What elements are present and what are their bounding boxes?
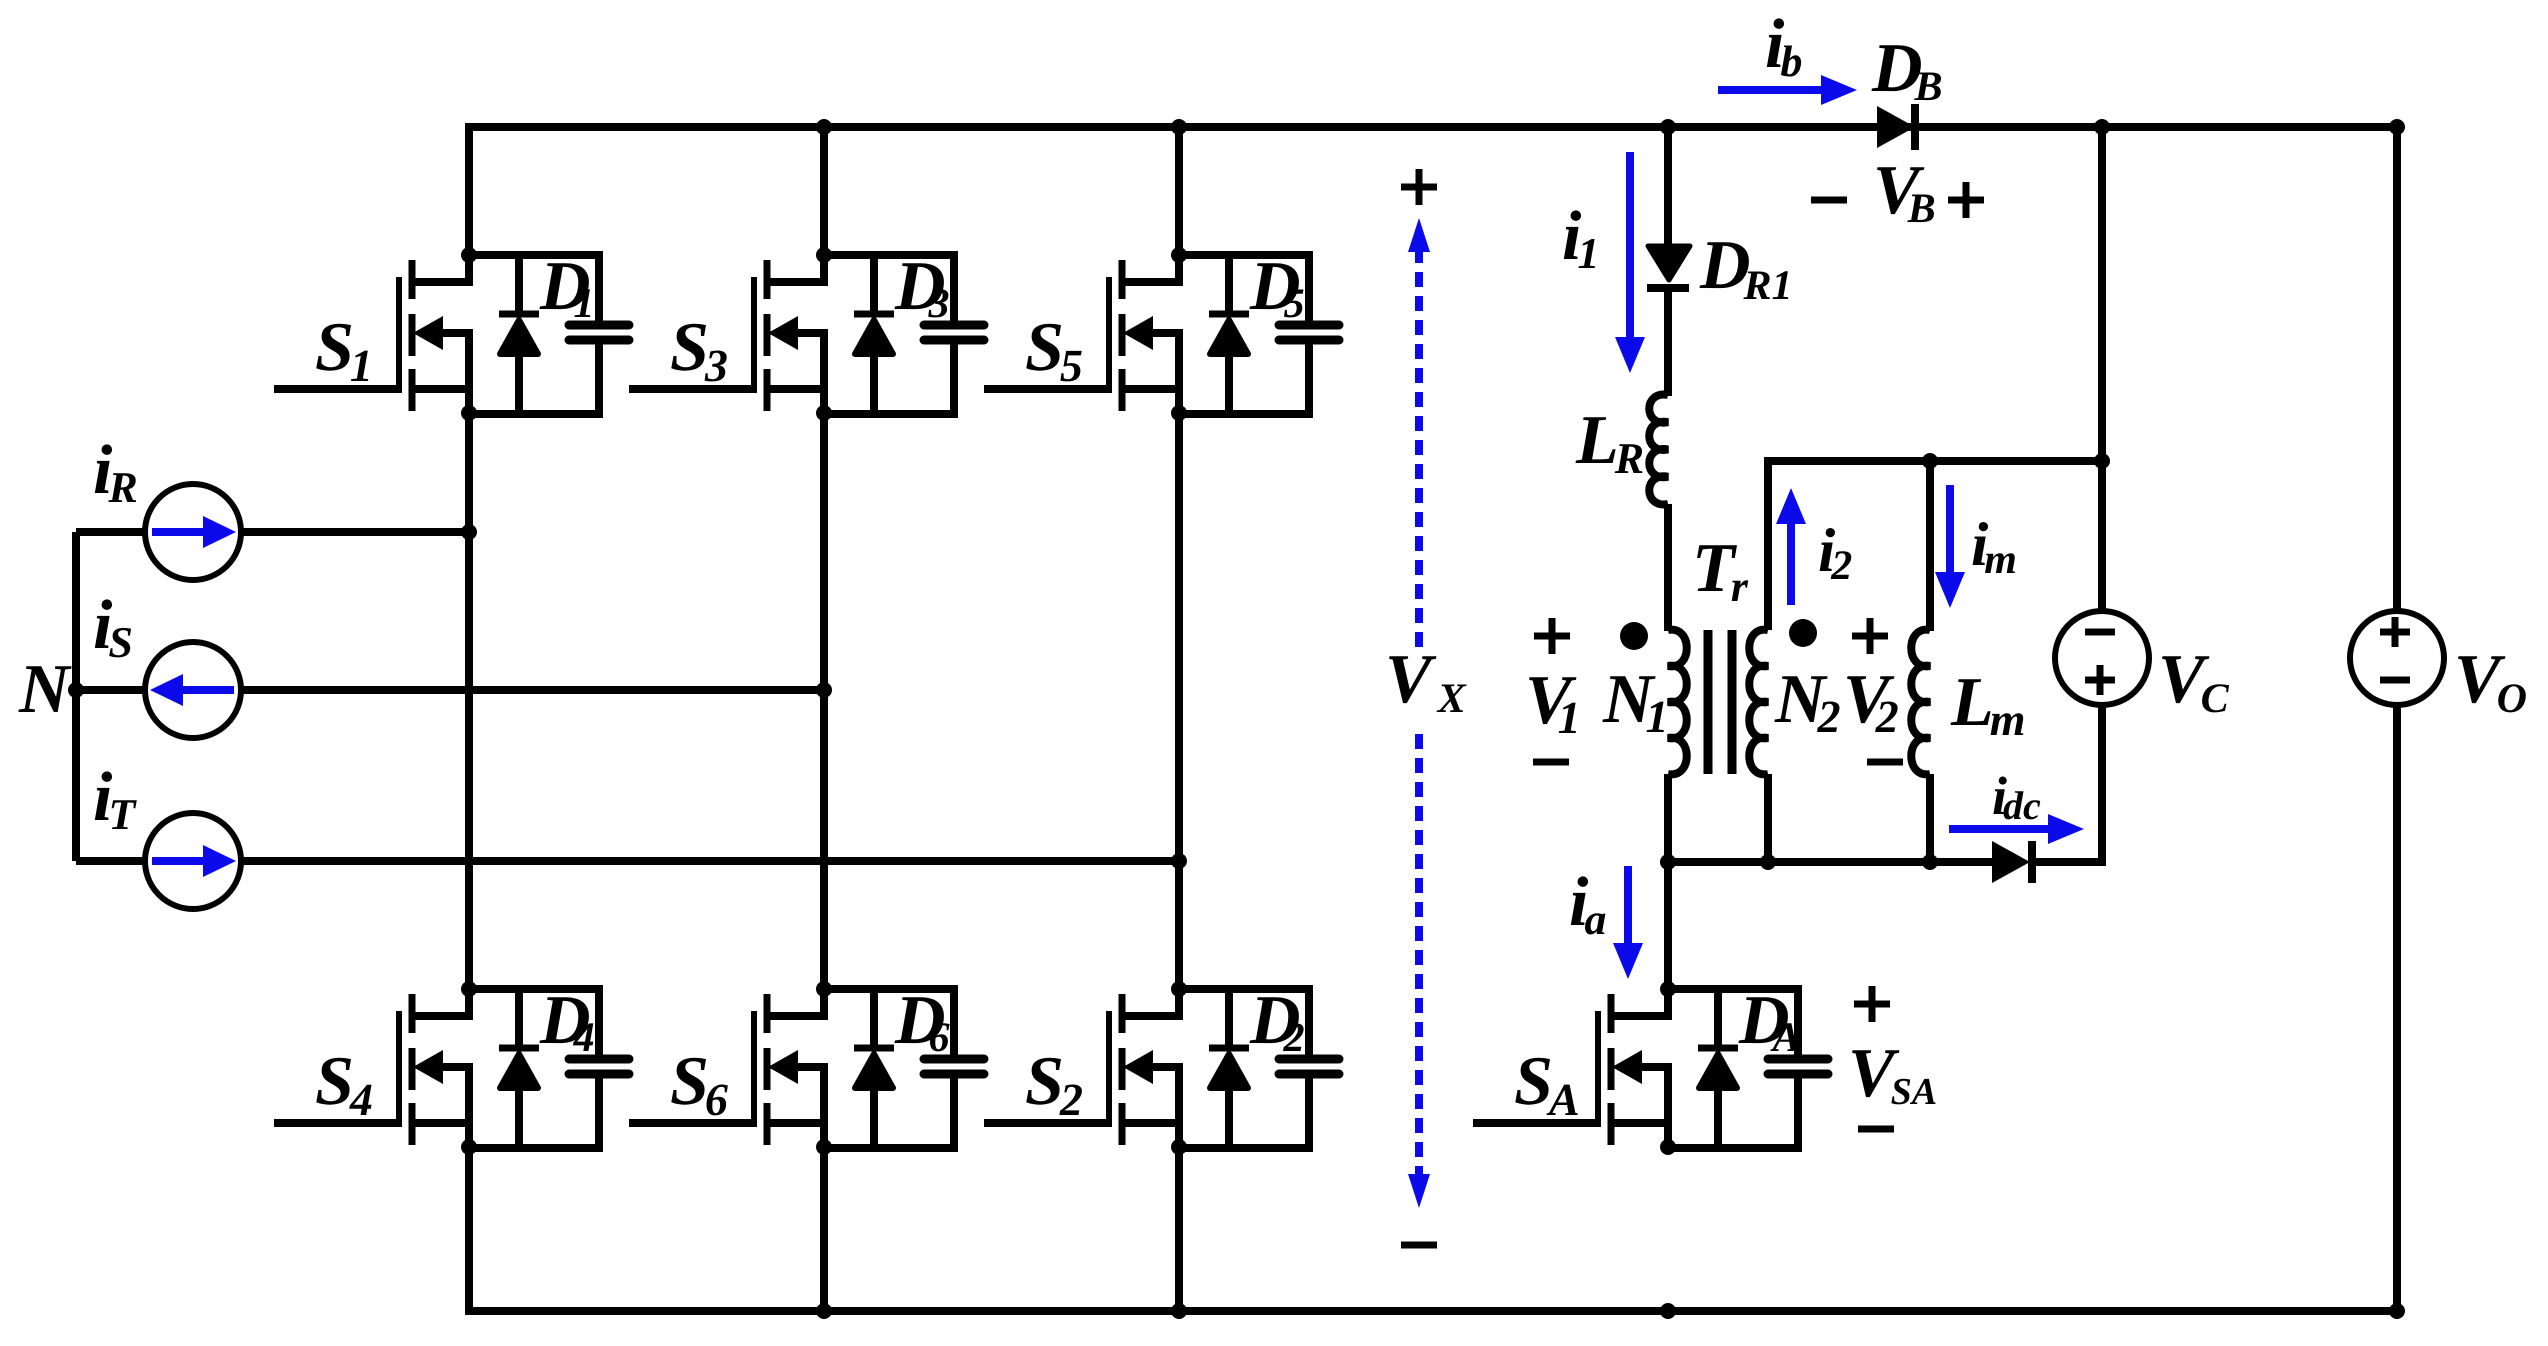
label Lm: [1951, 679, 2024, 735]
wire cell S1 top: [469, 251, 599, 259]
transistor S6 source lead: [770, 1067, 824, 1148]
wire VO column upper: [2393, 123, 2401, 611]
label ia: [1571, 876, 1606, 934]
label S3: [671, 324, 726, 382]
current source iT: [145, 813, 241, 909]
transformer primary winding N1: [1668, 630, 1687, 775]
wire cell S4 bottom: [469, 1144, 599, 1152]
diode DB triangle: [1877, 106, 1915, 148]
transistor S3 drain lead: [770, 255, 824, 282]
transistor S4 gate bar: [396, 1011, 402, 1125]
wire column R lower (S4 to bottom rail): [465, 1147, 473, 1311]
transistor S4 source lead: [415, 1067, 469, 1148]
wire cell S5 top: [1179, 251, 1309, 259]
wire bottom rail: [465, 1307, 2397, 1315]
wire phase S left lead: [76, 686, 146, 694]
label V2 minus: [1867, 759, 1903, 766]
inductor Lm riser: [1926, 461, 1934, 631]
transistor S5 channel bar middle: [1119, 314, 1126, 356]
transistor S1 body arrow: [413, 316, 443, 350]
transistor S4 channel bar top: [409, 994, 416, 1033]
node S1 source (bottom): [461, 405, 477, 421]
diode DA cathode lead: [1714, 989, 1722, 1045]
wire neutral left vertical: [72, 532, 80, 861]
current arrow idc: [1949, 825, 2052, 833]
label VX: [1389, 656, 1467, 712]
diode D4 cathode lead: [515, 989, 523, 1045]
node phase S junction: [816, 682, 832, 698]
wire cell S2 top: [1179, 985, 1309, 993]
node VO bottom rail junction: [2389, 1303, 2405, 1319]
label iS: [95, 599, 131, 657]
label V1: [1529, 677, 1576, 733]
transistor S1 gate bar: [396, 277, 402, 391]
node N: [68, 682, 84, 698]
wire column S middle (S3 to S6): [820, 413, 828, 989]
wire transformer bottom bus: [1668, 858, 1992, 866]
transistor S6 channel bar middle: [764, 1048, 771, 1090]
node secondary bottom junction: [1760, 854, 1776, 870]
label VO: [2458, 656, 2526, 712]
node S4 source (bottom): [461, 1139, 477, 1155]
diode D4 triangle: [500, 1054, 538, 1088]
label VSA minus: [1858, 1126, 1894, 1133]
capacitor C3 top lead: [950, 251, 958, 321]
transistor S6 gate lead: [629, 1119, 757, 1127]
current arrow i1: [1626, 152, 1634, 341]
transistor S1 source lead: [415, 333, 469, 414]
wire VO column lower: [2393, 705, 2401, 1311]
capacitor C2 bottom lead: [1305, 1078, 1313, 1152]
transistor S5 channel bar bottom: [1119, 369, 1126, 411]
transistor S4 channel bar middle: [409, 1048, 416, 1090]
transistor SA channel bar middle: [1608, 1048, 1615, 1090]
node N1 polarity dot: [1620, 622, 1648, 650]
label D5: [1250, 263, 1304, 317]
diode DR1 anode bar: [1647, 284, 1689, 292]
transistor S3 body arrow: [768, 316, 798, 350]
wire VC column upper: [2098, 123, 2106, 611]
transistor S5 channel bar top: [1119, 260, 1126, 299]
diode D6 triangle: [855, 1054, 893, 1088]
transistor S5 gate lead: [984, 385, 1112, 393]
node S6 drain (top): [816, 981, 832, 997]
node S5 source (bottom): [1171, 405, 1187, 421]
current source iR: [145, 484, 241, 580]
label N2: [1774, 676, 1839, 732]
diode D2 cathode bar: [1209, 1045, 1249, 1052]
transistor SA drain lead: [1614, 989, 1668, 1016]
diode D6 anode lead: [870, 1087, 878, 1148]
node VC secondary junction: [2094, 453, 2110, 469]
capacitor C4 bottom lead: [595, 1078, 603, 1152]
node top rail / column A junction: [1660, 119, 1676, 135]
label DA: [1739, 997, 1799, 1051]
diode D4 cathode bar: [499, 1045, 539, 1052]
label VX minus: [1401, 1242, 1437, 1249]
label D6: [895, 997, 950, 1051]
wire column S lower (S6 to bottom rail): [820, 1147, 828, 1311]
diode D3 cathode bar: [854, 311, 894, 318]
diode Ddc triangle: [1992, 841, 2030, 883]
current source iS: [145, 642, 241, 738]
transistor S1 gate lead: [274, 385, 402, 393]
capacitor CA bottom lead: [1794, 1078, 1802, 1152]
node bottom rail / column T junction: [1171, 1303, 1187, 1319]
label V2: [1847, 676, 1898, 732]
transistor S2 drain lead: [1125, 989, 1179, 1016]
node bottom rail / column A junction: [1660, 1303, 1676, 1319]
transistor S4 channel bar bottom: [409, 1103, 416, 1145]
diode DB cathode bar: [1911, 104, 1919, 150]
label iR: [95, 444, 136, 502]
transistor S2 channel bar bottom: [1119, 1103, 1126, 1145]
wire column R middle (S1 to S4): [465, 413, 473, 989]
wire Ddc to VC: [2032, 705, 2102, 862]
label i2: [1820, 528, 1852, 579]
wire column S upper (top rail to S3): [820, 123, 828, 255]
diode DA cathode bar: [1698, 1045, 1738, 1052]
diode DA anode lead: [1714, 1087, 1722, 1148]
label S5: [1026, 324, 1081, 382]
label VSA: [1852, 1050, 1936, 1104]
transistor S3 source lead: [770, 333, 824, 414]
capacitor C5 bottom lead: [1305, 344, 1313, 418]
label VSA plus: [1854, 986, 1890, 1022]
label VC internal plus: [2085, 665, 2115, 695]
diode D3 cathode lead: [870, 255, 878, 311]
diode D1 cathode bar: [499, 311, 539, 318]
transistor S1 channel bar bottom: [409, 369, 416, 411]
node phase R junction: [461, 524, 477, 540]
current arrow ia: [1624, 866, 1632, 947]
transformer core: [1704, 630, 1713, 774]
voltage source VC: [2055, 611, 2149, 705]
wire secondary bottom: [1764, 774, 1772, 866]
wire bus to SA: [1664, 862, 1672, 989]
node Lm bottom junction: [1922, 854, 1938, 870]
node VO top rail junction: [2389, 119, 2405, 135]
node VC top rail junction: [2094, 119, 2110, 135]
diode DR1 triangle: [1648, 246, 1690, 280]
diode D6 cathode bar: [854, 1045, 894, 1052]
diode D5 cathode bar: [1209, 311, 1249, 318]
transistor SA gate lead: [1473, 1119, 1601, 1127]
transistor S1 channel bar top: [409, 260, 416, 299]
node S2 drain (top): [1171, 981, 1187, 997]
wire cell S2 bottom: [1179, 1144, 1309, 1152]
transistor S2 gate bar: [1106, 1011, 1112, 1125]
transistor S4 drain lead: [415, 989, 469, 1016]
label S4: [316, 1058, 371, 1115]
label D3: [895, 263, 949, 317]
wire cell S6 top: [824, 985, 954, 993]
net VX dashed measurement arrow: [1415, 248, 1423, 648]
node S3 source (bottom): [816, 405, 832, 421]
transistor S6 channel bar top: [764, 994, 771, 1033]
node bottom rail / column S junction: [816, 1303, 832, 1319]
capacitor CA plates: [1768, 1059, 1828, 1074]
capacitor C6 plates: [924, 1059, 984, 1074]
capacitor C1 bottom lead: [595, 344, 603, 418]
wire cell SA bottom: [1668, 1144, 1798, 1152]
wire cell S1 bottom: [469, 410, 599, 418]
node SA source (bottom): [1660, 1139, 1676, 1155]
capacitor C3 plates: [924, 325, 984, 340]
label DB: [1872, 45, 1942, 100]
diode D1 triangle: [500, 320, 538, 354]
node Lm top junction: [1922, 453, 1938, 469]
node phase T junction: [1171, 853, 1187, 869]
transistor S6 channel bar bottom: [764, 1103, 771, 1145]
transistor S4 body arrow: [413, 1050, 443, 1084]
transistor S3 gate bar: [751, 277, 757, 391]
capacitor C6 bottom lead: [950, 1078, 958, 1152]
node SA drain (top): [1660, 981, 1676, 997]
diode D3 anode lead: [870, 353, 878, 414]
transistor S2 channel bar middle: [1119, 1048, 1126, 1090]
node S3 drain (top): [816, 247, 832, 263]
capacitor C5 plates: [1279, 325, 1339, 340]
capacitor C4 top lead: [595, 985, 603, 1055]
transistor S2 channel bar top: [1119, 994, 1126, 1033]
label VC internal minus: [2085, 629, 2115, 636]
diode D2 anode lead: [1225, 1087, 1233, 1148]
node S6 source (bottom): [816, 1139, 832, 1155]
capacitor C1 plates: [569, 325, 629, 340]
node top rail / column T junction: [1171, 119, 1187, 135]
capacitor C3 bottom lead: [950, 344, 958, 418]
node top rail / column S junction: [816, 119, 832, 135]
wire column T lower (S2 to bottom rail): [1175, 1147, 1183, 1311]
label D2: [1250, 997, 1304, 1051]
inductor Lm: [1911, 630, 1930, 775]
transistor S6 body arrow: [768, 1050, 798, 1084]
diode DA triangle: [1699, 1054, 1737, 1088]
label V1 minus: [1533, 759, 1569, 766]
label S2: [1026, 1058, 1082, 1115]
capacitor C4 plates: [569, 1059, 629, 1074]
node N2 polarity dot: [1789, 619, 1817, 647]
diode D3 triangle: [855, 320, 893, 354]
label iT: [95, 771, 137, 829]
wire phase R to bridge: [240, 528, 469, 536]
wire cell S6 bottom: [824, 1144, 954, 1152]
diode D5 anode lead: [1225, 353, 1233, 414]
capacitor C1 top lead: [595, 251, 603, 321]
node S4 drain (top): [461, 981, 477, 997]
wire LR to primary: [1664, 504, 1672, 631]
wire phase T left lead: [76, 857, 146, 865]
wire column T upper (top rail to S5): [1175, 123, 1183, 255]
inductor LR: [1649, 395, 1668, 505]
wire secondary top riser: [1768, 461, 2102, 630]
voltage source VO: [2350, 611, 2444, 705]
label idc: [1993, 777, 2040, 820]
capacitor C2 top lead: [1305, 985, 1313, 1055]
wire column T middle (S5 to S2): [1175, 413, 1183, 989]
wire column R upper (top rail to S1): [465, 123, 473, 255]
label i1: [1564, 210, 1595, 268]
label VB minus: [1811, 197, 1847, 204]
transistor S5 source lead: [1125, 333, 1179, 414]
label N: [18, 666, 71, 712]
wire cell S3 top: [824, 251, 954, 259]
label D1: [540, 263, 591, 317]
label LR: [1576, 417, 1643, 473]
label V1 plus: [1534, 618, 1570, 654]
label S6: [671, 1058, 728, 1116]
transistor S6 gate bar: [751, 1011, 757, 1125]
wire cell S5 bottom: [1179, 410, 1309, 418]
transistor S3 channel bar top: [764, 260, 771, 299]
diode D2 cathode lead: [1225, 989, 1233, 1045]
diode D1 cathode lead: [515, 255, 523, 311]
transistor SA gate bar: [1595, 1011, 1601, 1125]
transistor S2 body arrow: [1123, 1050, 1153, 1084]
wire phase T to bridge: [240, 857, 1179, 865]
node S1 drain (top): [461, 247, 477, 263]
node S2 source (bottom): [1171, 1139, 1187, 1155]
label VO internal plus: [2380, 617, 2410, 647]
diode D5 cathode lead: [1225, 255, 1233, 311]
diode D2 triangle: [1210, 1054, 1248, 1088]
label S1: [316, 324, 368, 381]
label V2 plus: [1852, 618, 1888, 654]
transistor S6 drain lead: [770, 989, 824, 1016]
label ib: [1767, 18, 1801, 76]
transistor S5 drain lead: [1125, 255, 1179, 282]
node S5 drain (top): [1171, 247, 1187, 263]
diode Ddc cathode bar: [2028, 841, 2036, 883]
transistor S5 gate bar: [1106, 277, 1112, 391]
diode D5 triangle: [1210, 320, 1248, 354]
wire Lm bottom: [1926, 774, 1934, 866]
transistor S1 channel bar middle: [409, 314, 416, 356]
capacitor CA top lead: [1794, 985, 1802, 1055]
capacitor C6 top lead: [950, 985, 958, 1055]
transistor S3 channel bar middle: [764, 314, 771, 356]
transistor SA body arrow: [1612, 1050, 1642, 1084]
wire top rail: [465, 123, 2397, 131]
wire cell SA top: [1668, 985, 1798, 993]
wire phase S to bridge: [240, 686, 824, 694]
wire primary bottom: [1664, 774, 1672, 866]
label D4: [540, 997, 594, 1051]
capacitor C2 plates: [1279, 1059, 1339, 1074]
capacitor C5 top lead: [1305, 251, 1313, 321]
transistor SA channel bar bottom: [1608, 1103, 1615, 1145]
label DR1: [1700, 242, 1789, 299]
transistor S1 drain lead: [415, 255, 469, 282]
label VB plus: [1948, 182, 1984, 218]
label VX plus: [1401, 169, 1437, 205]
transistor S3 gate lead: [629, 385, 757, 393]
label SA: [1515, 1058, 1577, 1115]
transistor SA channel bar top: [1608, 994, 1615, 1033]
current arrow i2: [1787, 520, 1795, 605]
label VO internal minus: [2380, 677, 2410, 684]
current arrow ib: [1718, 86, 1825, 94]
label N1: [1602, 676, 1664, 732]
transistor S5 body arrow: [1123, 316, 1153, 350]
wire phase R left lead: [76, 528, 146, 536]
transistor S3 channel bar bottom: [764, 369, 771, 411]
transistor S2 gate lead: [984, 1119, 1112, 1127]
wire column A top (rail to DR1): [1664, 123, 1672, 250]
transistor S4 gate lead: [274, 1119, 402, 1127]
label Tr: [1697, 545, 1748, 601]
label VB: [1877, 167, 1934, 222]
label im: [1973, 522, 2015, 573]
wire cell S4 top: [469, 985, 599, 993]
node primary bottom junction: [1660, 854, 1676, 870]
transformer secondary winding N2: [1749, 630, 1768, 775]
wire DR1 to LR: [1664, 291, 1672, 396]
diode D1 anode lead: [515, 353, 523, 414]
label VC: [2162, 656, 2229, 712]
transistor S2 source lead: [1125, 1067, 1179, 1148]
wire cell S3 bottom: [824, 410, 954, 418]
current arrow im: [1946, 485, 1954, 576]
diode D4 anode lead: [515, 1087, 523, 1148]
diode D6 cathode lead: [870, 989, 878, 1045]
transistor SA source lead: [1614, 1067, 1668, 1148]
